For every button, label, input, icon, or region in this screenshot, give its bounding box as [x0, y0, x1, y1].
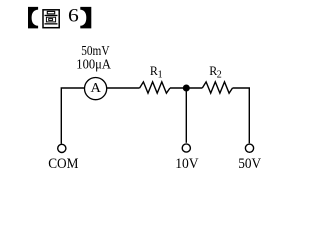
svg-text:A: A — [91, 81, 102, 96]
svg-text:6: 6 — [68, 6, 79, 27]
svg-text:2: 2 — [217, 70, 222, 81]
svg-text:1: 1 — [158, 70, 163, 81]
svg-text:50V: 50V — [238, 156, 261, 172]
svg-text:COM: COM — [48, 156, 78, 172]
svg-text:100μA: 100μA — [76, 58, 111, 73]
svg-text:10V: 10V — [175, 156, 199, 172]
